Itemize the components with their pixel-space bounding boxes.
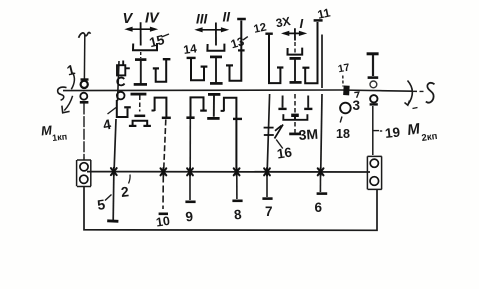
svg-text:II: II <box>223 10 231 25</box>
svg-text:14: 14 <box>182 41 197 57</box>
svg-text:9: 9 <box>185 209 194 225</box>
svg-text:5: 5 <box>96 196 106 213</box>
svg-text:I: I <box>300 16 304 31</box>
svg-text:1кп: 1кп <box>52 131 68 143</box>
svg-text:8: 8 <box>233 207 243 223</box>
svg-text:IV: IV <box>145 11 160 27</box>
svg-text:12: 12 <box>253 21 268 35</box>
svg-text:V: V <box>123 11 134 27</box>
svg-text:19: 19 <box>384 125 401 141</box>
svg-text:13: 13 <box>229 34 246 51</box>
svg-text:18: 18 <box>336 127 350 141</box>
svg-text:17: 17 <box>337 61 351 75</box>
svg-text:7: 7 <box>265 204 273 219</box>
svg-text:M: M <box>406 120 421 139</box>
svg-text:6: 6 <box>315 200 323 215</box>
svg-text:3М: 3М <box>298 126 319 143</box>
svg-text:3X: 3X <box>275 14 292 30</box>
svg-text:10: 10 <box>155 214 171 230</box>
svg-text:1: 1 <box>65 61 77 78</box>
svg-text:2: 2 <box>120 183 130 200</box>
svg-text:3: 3 <box>353 98 361 113</box>
svg-text:2кп: 2кп <box>421 131 438 144</box>
svg-text:16: 16 <box>276 145 293 162</box>
svg-text:4: 4 <box>102 116 113 133</box>
svg-text:III: III <box>196 12 208 27</box>
